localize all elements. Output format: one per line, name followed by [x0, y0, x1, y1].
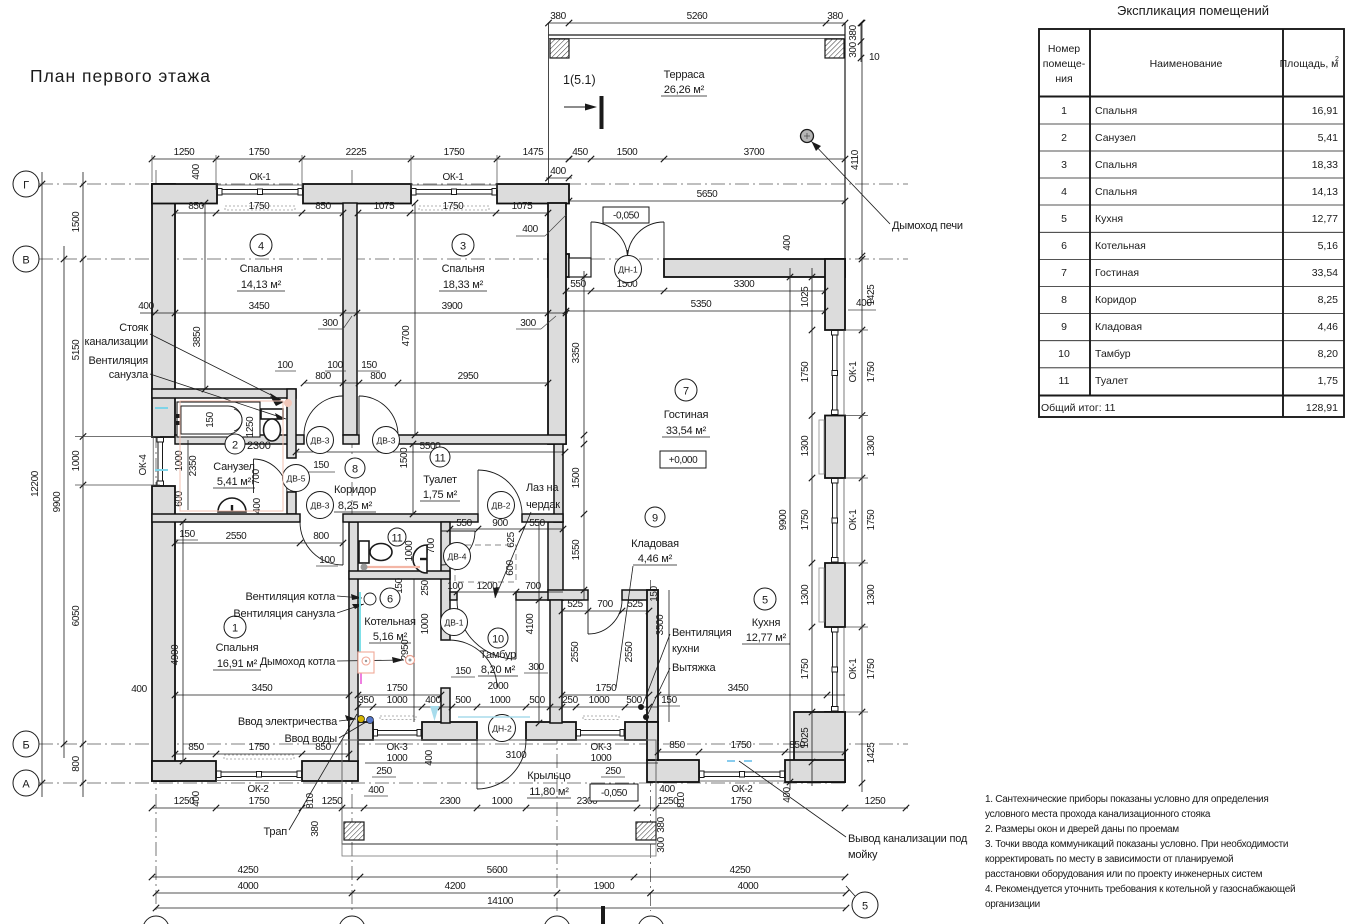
- svg-text:ДН-2: ДН-2: [492, 724, 512, 734]
- door ДВ-3 bedroom4: [342, 396, 344, 435]
- window ОК-4 left wall: [152, 437, 154, 486]
- svg-text:2550: 2550: [624, 641, 635, 662]
- svg-text:525: 525: [627, 599, 643, 610]
- svg-text:1075: 1075: [374, 201, 395, 212]
- svg-text:12,77 м²: 12,77 м²: [746, 632, 787, 644]
- right exterior wall seg 4: [825, 712, 845, 782]
- door ДВ-5 bathroom: [253, 459, 255, 493]
- dimension 4110: [861, 23, 863, 259]
- corridor bottom wall west: [152, 514, 300, 522]
- svg-text:Гостиная: Гостиная: [1095, 267, 1139, 279]
- svg-text:800: 800: [370, 371, 386, 382]
- svg-text:250: 250: [420, 579, 431, 595]
- svg-text:4200: 4200: [445, 881, 466, 892]
- attic hatch dashed: [455, 545, 516, 582]
- door mark ДН-1: [615, 256, 642, 283]
- sink bathroom: [218, 498, 246, 512]
- svg-text:9900: 9900: [52, 491, 63, 512]
- axis 1 vertical: [155, 170, 157, 911]
- extension lines ОК-4: [75, 436, 160, 438]
- window ОК-1 right wall 3: [843, 627, 845, 712]
- toilet bathroom: [261, 409, 283, 419]
- svg-text:Спальня: Спальня: [1095, 186, 1137, 198]
- wc pink pipe: [363, 566, 420, 568]
- svg-text:канализации: канализации: [85, 336, 149, 348]
- svg-text:700: 700: [597, 599, 613, 610]
- svg-text:350: 350: [358, 695, 374, 706]
- svg-text:Кладовая: Кладовая: [1095, 321, 1142, 333]
- svg-text:1500: 1500: [399, 447, 410, 468]
- svg-text:150: 150: [205, 411, 216, 427]
- corridor dim 5500: [296, 451, 565, 453]
- svg-text:400: 400: [659, 784, 675, 795]
- svg-text:4250: 4250: [238, 865, 259, 876]
- svg-text:16,91: 16,91: [1312, 105, 1338, 117]
- svg-text:380: 380: [550, 11, 566, 22]
- radiator storage: [583, 716, 619, 720]
- recessed south wall between ДН-2 and ОК-3: [526, 722, 576, 740]
- svg-text:150: 150: [179, 529, 195, 540]
- axis circle Б: [13, 731, 39, 757]
- window ОК-2 bottom kitchen: [699, 780, 785, 782]
- chimney Дымоход печи: [801, 130, 814, 143]
- bedroom1 east wall: [349, 522, 358, 761]
- svg-text:380: 380: [827, 11, 843, 22]
- svg-text:1750: 1750: [249, 147, 270, 158]
- svg-text:400: 400: [138, 301, 154, 312]
- svg-text:128,91: 128,91: [1306, 402, 1338, 414]
- bath tub: [177, 402, 260, 437]
- svg-text:Экспликация помещений: Экспликация помещений: [1117, 3, 1269, 18]
- svg-text:8,20 м²: 8,20 м²: [481, 664, 516, 676]
- vent circle boiler: [364, 593, 376, 605]
- svg-text:8: 8: [1061, 294, 1067, 306]
- radiator bedroom4: [225, 206, 295, 210]
- bottom wall left seg 2: [302, 761, 358, 781]
- svg-text:1250: 1250: [658, 796, 679, 807]
- left exterior wall lower: [152, 486, 175, 781]
- tambour north wall west bit: [450, 592, 457, 600]
- svg-text:Туалет: Туалет: [423, 474, 457, 486]
- svg-text:400: 400: [191, 163, 202, 179]
- window ОК-1 right wall 1: [843, 330, 845, 416]
- svg-text:ОК-1: ОК-1: [250, 172, 272, 183]
- row 1250 1750 1250 2300 1000 2300 1250: [152, 807, 908, 809]
- tambour vertical 4100: [538, 522, 540, 723]
- svg-text:33,54: 33,54: [1312, 267, 1338, 279]
- room 5: [754, 588, 776, 610]
- svg-text:Вентиляция: Вентиляция: [672, 627, 732, 639]
- svg-text:11: 11: [434, 453, 445, 465]
- svg-text:1,75 м²: 1,75 м²: [423, 489, 458, 501]
- bathroom east wall lower: [287, 492, 296, 514]
- svg-text:400: 400: [782, 786, 793, 802]
- storage dims 525 700 525 / 2550 / 1750: [562, 610, 649, 612]
- svg-text:100: 100: [319, 555, 335, 566]
- svg-text:1500: 1500: [71, 211, 82, 232]
- vertical dim 3850 bedroom4: [204, 203, 206, 389]
- terrace corner dims 380 300 10: [860, 23, 862, 62]
- svg-text:Наименование: Наименование: [1150, 58, 1223, 70]
- svg-text:4100: 4100: [525, 613, 536, 634]
- svg-text:1750: 1750: [596, 683, 617, 694]
- svg-text:4110: 4110: [850, 149, 861, 170]
- svg-text:550: 550: [570, 279, 586, 290]
- svg-text:1750: 1750: [800, 658, 811, 679]
- axis В horizontal: [39, 258, 908, 260]
- svg-text:250: 250: [562, 695, 578, 706]
- svg-text:400: 400: [131, 684, 147, 695]
- svg-text:2. Размеры окон и дверей даны: 2. Размеры окон и дверей даны по проемам: [985, 824, 1179, 835]
- bearing wall axis 3: [548, 203, 566, 444]
- bathroom pipe tracing: [180, 401, 283, 511]
- bedroom divider wall axis 2: [343, 203, 357, 435]
- svg-text:ОК-1: ОК-1: [848, 658, 859, 680]
- svg-text:ОК-2: ОК-2: [248, 784, 270, 795]
- outer chain 1425 ОК-1 1750 1300 ...: [861, 250, 863, 792]
- svg-text:300: 300: [656, 836, 667, 852]
- svg-text:1550: 1550: [571, 539, 582, 560]
- bedroom3 inner dim 1075 1750 1075: [358, 212, 548, 214]
- svg-text:400: 400: [425, 695, 441, 706]
- recessed south wall боковая котельной: [349, 722, 373, 740]
- svg-text:300: 300: [848, 41, 859, 57]
- door ДВ-2 attic closet: [477, 470, 479, 514]
- room 6: [380, 588, 400, 608]
- door ДВ-3 bedroom1: [342, 522, 344, 565]
- recessed south wall east of ОК-3: [625, 722, 658, 740]
- room 11 label: [430, 447, 450, 467]
- svg-text:1025: 1025: [800, 286, 811, 307]
- svg-text:5: 5: [762, 595, 768, 607]
- svg-text:6: 6: [387, 594, 393, 606]
- sink wc: [413, 545, 427, 573]
- svg-text:ОК-1: ОК-1: [848, 361, 859, 383]
- svg-text:150: 150: [661, 695, 677, 706]
- svg-text:1750: 1750: [443, 201, 464, 212]
- svg-text:5,16: 5,16: [1318, 240, 1339, 252]
- notes: [985, 793, 1295, 910]
- svg-text:ДВ-2: ДВ-2: [492, 501, 511, 511]
- svg-text:корректировать по месту в зави: корректировать по месту в зависимости от…: [985, 854, 1233, 865]
- bathroom cyan taps: [155, 407, 168, 409]
- svg-text:8,25 м²: 8,25 м²: [338, 500, 373, 512]
- svg-text:250: 250: [605, 766, 621, 777]
- svg-text:300: 300: [528, 662, 544, 673]
- svg-text:Площадь, м: Площадь, м: [1280, 58, 1339, 70]
- window ОК-1 right wall 2: [843, 478, 845, 563]
- svg-text:1750: 1750: [731, 796, 752, 807]
- svg-text:800: 800: [313, 531, 329, 542]
- svg-text:ОК-1: ОК-1: [848, 509, 859, 531]
- axis circle Г: [13, 171, 39, 197]
- svg-text:Г: Г: [23, 180, 29, 192]
- svg-text:1300: 1300: [866, 435, 877, 456]
- closet dims 550 900 550: [450, 528, 563, 530]
- room 10: [488, 628, 508, 648]
- room 8: [345, 458, 365, 478]
- svg-text:Котельная: Котельная: [364, 616, 416, 628]
- door mark ДВ-3 bedroom1: [307, 492, 334, 519]
- terrace left edge: [548, 23, 550, 184]
- storage east wall: [647, 590, 658, 722]
- svg-text:ОК-1: ОК-1: [443, 172, 465, 183]
- svg-text:1750: 1750: [249, 796, 270, 807]
- svg-text:4700: 4700: [401, 325, 412, 346]
- svg-text:150: 150: [361, 360, 377, 371]
- svg-text:3700: 3700: [744, 147, 765, 158]
- electricity entry dot: [358, 716, 365, 723]
- svg-text:1750: 1750: [249, 201, 270, 212]
- axis circle А: [13, 770, 39, 796]
- row 4250 5600 4250: [152, 876, 845, 878]
- bedroom width dim row 400 3450 3900: [140, 312, 568, 314]
- svg-text:-0,050: -0,050: [601, 788, 628, 799]
- axis Б horizontal: [39, 743, 908, 745]
- svg-text:2550: 2550: [226, 531, 247, 542]
- corridor top wall east: [398, 435, 566, 444]
- svg-text:1750: 1750: [800, 509, 811, 530]
- svg-text:100: 100: [277, 360, 293, 371]
- svg-text:4,46 м²: 4,46 м²: [638, 553, 673, 565]
- svg-text:850: 850: [315, 201, 331, 212]
- svg-text:1750: 1750: [249, 742, 270, 753]
- kitchen vent dots: [638, 704, 644, 710]
- svg-text:+0,000: +0,000: [669, 455, 698, 466]
- svg-text:450: 450: [572, 147, 588, 158]
- wc east partition upper: [441, 522, 450, 640]
- tambour north wall east: [516, 592, 563, 600]
- svg-text:850: 850: [669, 740, 685, 751]
- svg-text:8,20: 8,20: [1318, 348, 1339, 360]
- svg-text:100: 100: [327, 360, 343, 371]
- chain 9900 right: [789, 268, 791, 790]
- top exterior wall segment 1: [152, 184, 217, 204]
- svg-text:250: 250: [376, 766, 392, 777]
- svg-text:33,54 м²: 33,54 м²: [666, 425, 707, 437]
- svg-text:3500: 3500: [655, 614, 666, 635]
- recessed south wall between ОК-3 and ДН-2: [422, 722, 477, 740]
- svg-text:5260: 5260: [687, 11, 708, 22]
- svg-text:550: 550: [529, 518, 545, 529]
- terrace right edge: [844, 23, 846, 259]
- svg-text:4250: 4250: [730, 865, 751, 876]
- svg-text:1750: 1750: [800, 361, 811, 382]
- chimney boiler circle: [406, 656, 415, 665]
- svg-text:Б: Б: [22, 740, 29, 752]
- svg-text:850: 850: [789, 740, 805, 751]
- svg-text:Гостиная: Гостиная: [664, 409, 709, 421]
- bottom section mark: [601, 906, 605, 924]
- svg-text:3450: 3450: [728, 683, 749, 694]
- svg-text:380: 380: [656, 816, 667, 832]
- svg-text:1425: 1425: [866, 284, 877, 305]
- svg-text:2300: 2300: [247, 440, 271, 452]
- dimension 450 1500 3700 row: [549, 158, 846, 160]
- svg-text:5600: 5600: [487, 865, 508, 876]
- terrace column right: [825, 39, 844, 58]
- svg-text:150: 150: [455, 666, 471, 677]
- svg-text:санузла: санузла: [109, 369, 149, 381]
- svg-text:Дымоход печи: Дымоход печи: [892, 220, 963, 232]
- svg-text:300: 300: [520, 318, 536, 329]
- svg-text:10: 10: [869, 52, 880, 63]
- radiator boiler: [380, 716, 416, 720]
- svg-text:мойку: мойку: [848, 849, 878, 861]
- svg-text:800: 800: [315, 371, 331, 382]
- svg-text:5: 5: [1061, 213, 1067, 225]
- radiator bedroom3: [419, 206, 489, 210]
- svg-text:10: 10: [1058, 348, 1070, 360]
- svg-text:1250: 1250: [322, 796, 343, 807]
- svg-text:Коридор: Коридор: [1095, 294, 1137, 306]
- svg-text:400: 400: [550, 166, 566, 177]
- bottom axis circles: [143, 916, 169, 924]
- svg-text:чердак: чердак: [526, 499, 560, 511]
- svg-text:ДВ-3: ДВ-3: [311, 501, 330, 511]
- corridor height 1500: [412, 444, 414, 514]
- svg-text:5: 5: [862, 901, 868, 913]
- svg-text:3: 3: [460, 241, 466, 253]
- svg-text:900: 900: [492, 518, 508, 529]
- svg-text:Ввод воды: Ввод воды: [284, 733, 337, 745]
- axis 3 vertical: [556, 250, 558, 911]
- svg-text:400: 400: [522, 224, 538, 235]
- vertical dim 4700 bedroom3: [414, 203, 416, 435]
- table grid: [1039, 29, 1344, 417]
- svg-text:8,25: 8,25: [1318, 294, 1339, 306]
- window ОК-2 bottom bedroom1: [216, 780, 302, 782]
- svg-text:380: 380: [310, 820, 321, 836]
- -0,050 box terrace door: [603, 207, 649, 223]
- water entry dot: [367, 717, 374, 724]
- svg-text:1000: 1000: [490, 695, 511, 706]
- svg-text:расстановки оборудования или п: расстановки оборудования или по проекту …: [985, 868, 1263, 880]
- kitchen window cyan dashes: [727, 760, 735, 762]
- corridor east wall: [554, 444, 563, 522]
- door mark ДН-2: [489, 715, 516, 742]
- svg-text:5150: 5150: [71, 339, 82, 360]
- svg-text:1750: 1750: [731, 740, 752, 751]
- bedroom1 bottom dims 850 1750 850: [175, 753, 349, 755]
- svg-text:1250: 1250: [174, 796, 195, 807]
- svg-text:ДВ-3: ДВ-3: [377, 436, 396, 446]
- extension lines right: [846, 329, 868, 331]
- svg-text:16,91 м²: 16,91 м²: [217, 658, 258, 670]
- svg-text:1000: 1000: [420, 613, 431, 634]
- chain 9900: [63, 246, 65, 758]
- room 11 circle in wc: [388, 528, 406, 546]
- door mark ДВ-4: [444, 543, 471, 570]
- tambour top dims 100 1200 700: [450, 591, 563, 593]
- svg-text:500: 500: [529, 695, 545, 706]
- svg-text:1000: 1000: [387, 753, 408, 764]
- svg-text:1300: 1300: [800, 435, 811, 456]
- living room top wall west block: [548, 254, 569, 277]
- svg-text:4000: 4000: [238, 881, 259, 892]
- svg-text:Ввод электричества: Ввод электричества: [238, 716, 338, 728]
- storage east wall lower: [647, 722, 658, 760]
- svg-text:5,41: 5,41: [1318, 132, 1339, 144]
- door tambour north opening: [515, 600, 517, 659]
- svg-text:850: 850: [188, 742, 204, 753]
- terrace column left: [550, 39, 569, 58]
- room explication table: [1039, 3, 1344, 417]
- svg-text:1750: 1750: [866, 658, 877, 679]
- svg-text:9900: 9900: [778, 509, 789, 530]
- toilet wc: [359, 541, 369, 563]
- svg-text:18,33 м²: 18,33 м²: [443, 279, 484, 291]
- svg-text:6: 6: [1061, 240, 1067, 252]
- svg-text:Санузел: Санузел: [213, 461, 254, 473]
- storage west wall: [548, 522, 563, 600]
- vertical chain 3350 1500 1550 east of bearing wall: [583, 271, 585, 600]
- svg-text:14,13 м²: 14,13 м²: [241, 279, 282, 291]
- svg-text:550: 550: [456, 518, 472, 529]
- svg-text:3100: 3100: [506, 750, 527, 761]
- left exterior wall upper: [152, 184, 175, 437]
- svg-text:1000: 1000: [591, 753, 612, 764]
- svg-text:1000: 1000: [71, 450, 82, 471]
- svg-text:План первого этажа: План первого этажа: [30, 66, 211, 86]
- bedroom1 dims 4900 3450: [182, 522, 184, 761]
- window ОК-3 storage: [579, 731, 622, 736]
- wc bottom wall: [349, 571, 450, 579]
- svg-text:7: 7: [683, 386, 689, 398]
- svg-text:Общий итог: 11: Общий итог: 11: [1041, 402, 1116, 414]
- bottom kitchen wall west jamb: [647, 760, 699, 782]
- svg-text:500: 500: [455, 695, 471, 706]
- svg-text:1900: 1900: [594, 881, 615, 892]
- top exterior wall segment 3: [497, 184, 569, 204]
- bedroom1 top dim 150 2550 800 100: [175, 542, 343, 544]
- svg-text:3. Точки ввода коммуникаций по: 3. Точки ввода коммуникаций показаны усл…: [985, 838, 1288, 850]
- axis 2 vertical: [351, 170, 353, 911]
- svg-text:1300: 1300: [800, 584, 811, 605]
- -0,050 box porch: [590, 784, 638, 801]
- room 9 circle: [645, 507, 665, 527]
- svg-text:2225: 2225: [346, 147, 367, 158]
- +0,000 mark: [660, 451, 706, 468]
- kitchen dims 3450: [658, 694, 845, 696]
- svg-text:1: 1: [232, 623, 238, 635]
- svg-text:2350: 2350: [188, 455, 199, 476]
- svg-text:8: 8: [352, 464, 358, 476]
- window ОК-3 boiler room: [376, 731, 419, 736]
- svg-text:Коридор: Коридор: [334, 484, 376, 496]
- svg-text:2550: 2550: [570, 641, 581, 662]
- svg-text:Вентиляция: Вентиляция: [89, 355, 149, 367]
- svg-text:11: 11: [391, 533, 402, 545]
- svg-text:700: 700: [426, 537, 437, 553]
- svg-text:6050: 6050: [71, 605, 82, 626]
- svg-text:В: В: [22, 255, 29, 267]
- svg-text:Тамбур: Тамбур: [480, 649, 516, 661]
- svg-text:2: 2: [1335, 56, 1339, 63]
- svg-text:1250: 1250: [245, 416, 256, 437]
- svg-text:Трап: Трап: [264, 826, 288, 838]
- svg-text:1075: 1075: [512, 201, 533, 212]
- svg-text:1250: 1250: [174, 147, 195, 158]
- svg-text:300: 300: [322, 318, 338, 329]
- svg-text:3450: 3450: [249, 301, 270, 312]
- svg-text:Кухня: Кухня: [1095, 213, 1123, 225]
- corridor bottom wall mid: [343, 514, 478, 522]
- svg-text:Туалет: Туалет: [1095, 375, 1128, 387]
- door mark ДВ-1: [441, 609, 468, 636]
- svg-text:ОК-3: ОК-3: [591, 742, 613, 753]
- svg-text:1475: 1475: [523, 147, 544, 158]
